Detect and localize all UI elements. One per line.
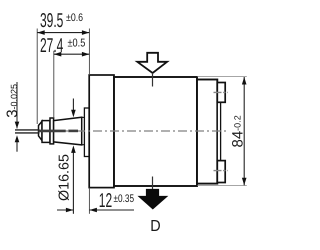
pump body — [114, 77, 197, 186]
extension line flange face up — [88, 29, 90, 76]
svg-text:Ø16.65: Ø16.65 — [56, 154, 72, 201]
shaft step lines — [82, 116, 85, 118]
svg-text:D: D — [150, 218, 160, 235]
lower port centerline — [214, 170, 228, 172]
svg-text:39.5: 39.5 — [40, 10, 63, 32]
extension line washer (27.4 dim) — [53, 51, 55, 119]
lower port boss — [217, 161, 225, 183]
extension line 84 bottom — [198, 184, 247, 186]
upper port boss — [217, 83, 225, 103]
dim line dia 16.65 lower / 12 ext — [72, 150, 74, 214]
outlet tick — [152, 177, 154, 190]
label 12 +-0.35 — [99, 190, 134, 212]
upper port centerline — [214, 91, 228, 93]
svg-text:12: 12 — [99, 190, 112, 212]
dim line 84 — [243, 77, 245, 185]
svg-text:27.4: 27.4 — [40, 35, 63, 57]
port face strip — [217, 102, 220, 160]
shaft bore hidden line — [39, 130, 79, 133]
dim 3 arrows — [16, 82, 18, 128]
shaft end slot lines — [15, 129, 40, 131]
tapered shaft — [54, 117, 82, 145]
dim line 39.5 — [37, 32, 89, 34]
inlet open arrow — [137, 53, 167, 73]
extension line flange face down — [88, 188, 90, 214]
extension line left (39.5 / 3 dim) — [36, 29, 38, 125]
label 27.4 +-0.5 — [40, 35, 85, 57]
centerline main axis — [42, 130, 229, 132]
label 39.5 +-0.6 — [40, 10, 83, 32]
dim line 27.4 — [54, 53, 90, 55]
svg-text:±0.35: ±0.35 — [114, 193, 135, 205]
shaft cone end — [39, 121, 43, 140]
svg-text:±0.5: ±0.5 — [68, 37, 86, 49]
extension line 84 top — [198, 76, 247, 78]
outlet solid arrow D — [139, 189, 167, 208]
mounting flange — [89, 75, 114, 188]
dim line dia 16.65 upper — [72, 99, 74, 113]
dim line 12 — [57, 209, 73, 211]
label 3 -0.025 rotated — [4, 84, 21, 118]
seal boss — [84, 108, 89, 157]
svg-text:±0.6: ±0.6 — [66, 12, 83, 24]
shaft nut — [42, 121, 50, 143]
end cover — [197, 80, 217, 184]
inlet tick — [152, 73, 154, 87]
shaft washer — [50, 118, 54, 144]
